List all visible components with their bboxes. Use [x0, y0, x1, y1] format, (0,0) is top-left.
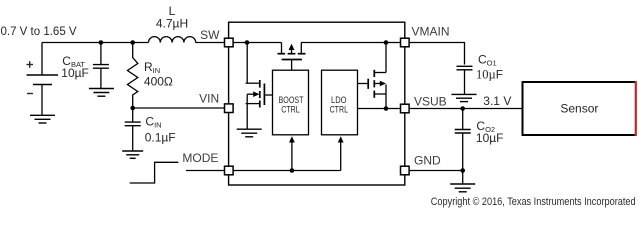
capacitor CIN [125, 108, 141, 151]
ground CBAT [89, 89, 114, 97]
wire MODE internal [233, 170, 340, 172]
svg-text:VSUB: VSUB [414, 95, 447, 109]
svg-text:VIN: VIN [199, 91, 219, 105]
wire top rail battery to inductor [42, 42, 149, 44]
svg-text:VMAIN: VMAIN [412, 25, 450, 39]
battery plus sign [27, 61, 34, 68]
svg-text:GND: GND [414, 154, 441, 168]
capacitor CBAT [93, 43, 109, 89]
ground CIN [122, 151, 143, 158]
transistor Q2 rectifier PMOS (horizontal) [278, 43, 306, 71]
ground battery [30, 115, 55, 123]
pin VMAIN square [401, 38, 410, 47]
capacitor CO1 [457, 66, 473, 94]
svg-text:CO1: CO1 [478, 53, 497, 68]
resistor RIN [127, 43, 137, 109]
transistor Q2 body arrow [289, 44, 295, 50]
op-amp LDO CTRL block [322, 70, 358, 135]
node junction dot VIN/RIN/CIN [130, 106, 135, 111]
svg-text:MODE: MODE [182, 151, 218, 165]
op-amp BOOST CTRL block [273, 70, 309, 135]
wire internal rail to VMAIN [301, 42, 400, 44]
wire GND [410, 170, 463, 172]
svg-text:3.1 V: 3.1 V [483, 94, 511, 108]
wire to ground CO2 [462, 171, 464, 184]
battery BT1 [27, 43, 59, 116]
transistor Q1 body arrow [253, 91, 259, 97]
svg-text:Sensor: Sensor [560, 102, 598, 116]
inductor L [149, 37, 196, 43]
MODE step waveform annotation [130, 162, 179, 183]
ground internal Q1 source [237, 129, 262, 137]
capacitor CO2 [455, 109, 471, 171]
wire inductor to SW pin [196, 42, 225, 44]
node junction dot Q3 source/VSUB [384, 106, 389, 111]
ground CO1 [452, 94, 477, 101]
wire VSUB internal [358, 108, 401, 110]
node junction dot Q3 drain tap [384, 40, 389, 45]
wire arrow into BOOST CTRL [291, 142, 293, 171]
pin GND square [401, 166, 410, 175]
pin SW square [225, 38, 234, 47]
node junction dot RIN tap [130, 40, 135, 45]
wire VMAIN to CO1 [410, 43, 465, 65]
svg-text:10µF: 10µF [61, 66, 89, 80]
svg-text:RIN: RIN [144, 60, 160, 75]
node junction dot Q1 drain tap [245, 40, 250, 45]
node junction dot MODE branch [290, 168, 295, 173]
svg-text:0.1µF: 0.1µF [145, 131, 176, 145]
transistor Q3 body arrow [380, 81, 386, 87]
svg-text:CIN: CIN [145, 115, 161, 130]
svg-text:Copyright © 2016, Texas Instru: Copyright © 2016, Texas Instruments Inco… [431, 196, 636, 208]
node junction dot CBAT tap [99, 40, 104, 45]
Sensor block [523, 82, 637, 135]
node junction dot GND/CO2 [460, 168, 465, 173]
svg-text:400Ω: 400Ω [144, 75, 173, 89]
svg-text:10µF: 10µF [476, 131, 504, 145]
svg-text:10µF: 10µF [476, 67, 503, 81]
svg-text:CTRL: CTRL [281, 104, 299, 114]
battery minus sign [27, 93, 33, 95]
wire VIN [133, 107, 224, 109]
transistor Q1 boost NMOS switch [246, 43, 273, 130]
op-amp U1 IC outline [229, 22, 405, 185]
pin VIN square [225, 104, 234, 113]
wire VSUB to sensor [410, 108, 522, 110]
wire MODE [186, 170, 224, 172]
transistor Q3 LDO pass PMOS [358, 43, 387, 109]
Sensor block red right edge [635, 81, 637, 136]
svg-text:4.7µH: 4.7µH [156, 17, 188, 31]
node junction dot VSUB/CO2 [460, 106, 465, 111]
svg-text:CTRL: CTRL [330, 104, 348, 114]
svg-text:SW: SW [200, 28, 220, 42]
wire arrow into LDO CTRL [340, 142, 342, 171]
wire SW internal rail [233, 42, 281, 44]
svg-text:0.7 V to 1.65 V: 0.7 V to 1.65 V [1, 26, 77, 38]
pin VSUB square [401, 104, 410, 113]
pin MODE square [225, 166, 234, 175]
ground CO2 [450, 184, 475, 192]
